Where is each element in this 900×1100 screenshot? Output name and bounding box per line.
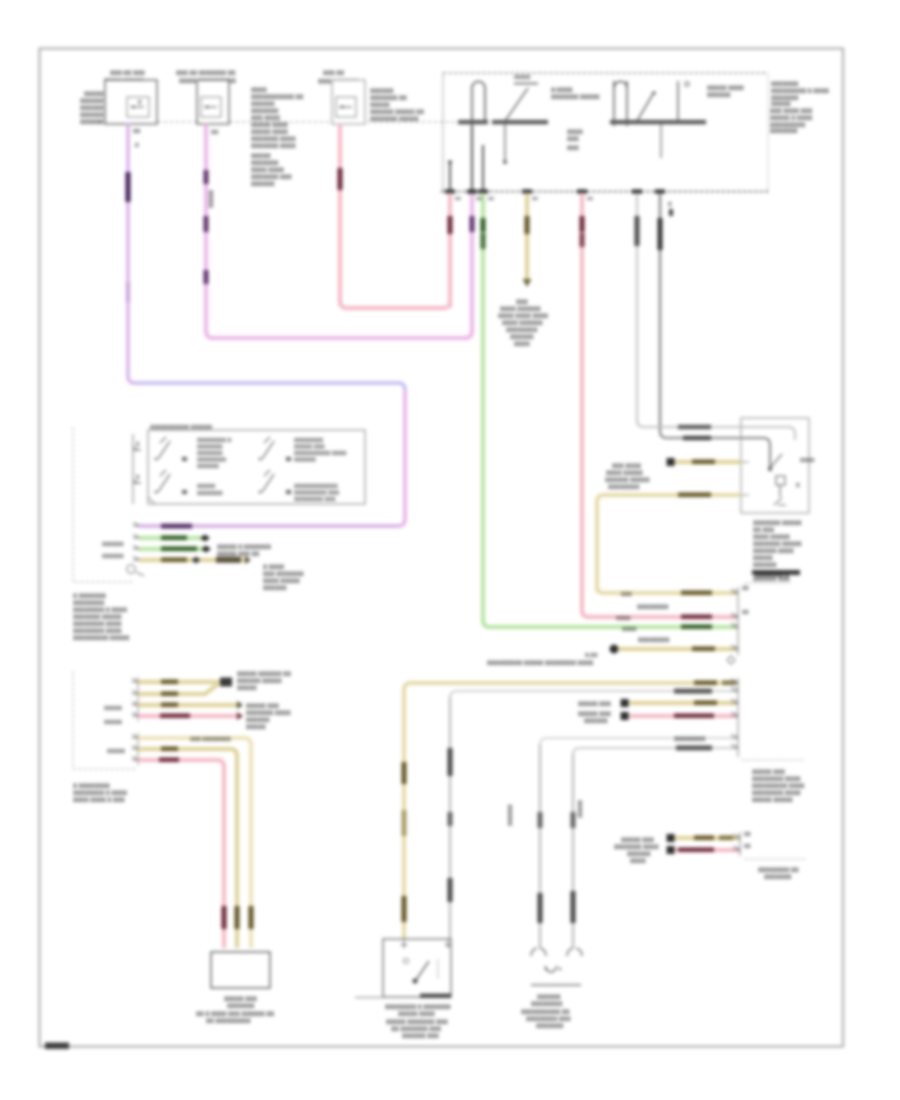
svg-text:XXXXXX: XXXXXX: [102, 554, 124, 560]
svg-text:XXXX: XXXX: [514, 342, 530, 348]
big tan loop top y683: [404, 683, 738, 690]
svg-text:X XXXX: X XXXX: [263, 565, 284, 571]
wire W10 dark drop x660: [659, 193, 661, 432]
svg-text:XXXXXXXXX XXXXX XXXXXXXX XXXX: XXXXXXXXX XXXXX XXXXXXXX XXXX: [487, 661, 593, 667]
svg-text:XXXXX XXXX: XXXXX XXXX: [251, 130, 288, 136]
svg-text:XXXXX: XXXXX: [578, 800, 584, 818]
wire tan T1 row y560: [139, 558, 246, 563]
connector bus y191 dashed: [441, 191, 768, 193]
S1 left bracket pins: [132, 434, 134, 504]
M1 left label text: [80, 92, 104, 126]
W1 wire code labels: [125, 172, 130, 202]
svg-text:XXXXXXXX: XXXXXXXX: [531, 1002, 562, 1008]
gray vertical x573: [572, 754, 574, 948]
svg-text:XX: XX: [742, 610, 749, 616]
K2 internals: [768, 467, 772, 471]
bottom mid box B2: [383, 939, 451, 997]
svg-text:XXXXXX XXXXX XX: XXXXXX XXXXX XX: [370, 110, 424, 116]
svg-text:XXXX XXXXXX: XXXX XXXXXX: [502, 321, 543, 327]
svg-text:XX X XXXX XXX XXXXXX XX: XX X XXXX XXX XXXXXX XX: [196, 1012, 274, 1018]
B2 text below: [385, 1005, 451, 1040]
svg-text:XXXXXX: XXXXXX: [584, 719, 608, 725]
wire W3 pink from M3: [340, 124, 450, 308]
svg-text:XXXXXXXX X XXXXXXX: XXXXXXXX X XXXXXXX: [385, 1005, 451, 1011]
svg-text:XXX: XXX: [567, 146, 579, 152]
svg-text:XX: XX: [455, 196, 461, 201]
wire W7 tan drop x527 with arrow end: [525, 193, 530, 280]
svg-text:XXXXXXX: XXXXXXX: [536, 1024, 563, 1030]
harness dash line y122: [92, 121, 460, 123]
svg-text:XXX XX: XXX XX: [323, 71, 344, 77]
svg-text:XXXXXX: XXXXXX: [102, 542, 124, 548]
relay arm R2: [637, 94, 653, 121]
svg-text:XXXXXXX: XXXXXXX: [251, 109, 278, 115]
wire green G2 row y549: [139, 547, 205, 552]
gray row y748: [573, 748, 738, 755]
svg-text:XXXX XXXX X XXX: XXXX XXXX X XXX: [73, 798, 125, 804]
splice ring symbol: [127, 565, 135, 573]
svg-text:XXXXXX: XXXXXX: [80, 113, 104, 119]
svg-text:XXXXX: XXXXX: [753, 556, 773, 562]
ground symbol G1: [545, 966, 557, 972]
svg-text:XX: XX: [133, 129, 141, 135]
svg-text:XXXXXXX XXXXX: XXXXXXX XXXXX: [551, 95, 599, 101]
bracket BR2 x738 lower: [737, 678, 739, 757]
svg-text:XXXXXX: XXXXXX: [627, 852, 651, 858]
svg-text:XXXX XXXXX: XXXX XXXXX: [263, 579, 300, 585]
svg-text:XXXXX: XXXXX: [237, 686, 257, 692]
G1 text below: [521, 995, 571, 1030]
M3 right text block: [370, 89, 424, 123]
svg-text:XXXXXX XXXX: XXXXXX XXXX: [753, 549, 794, 555]
splice dot SP2: [610, 645, 619, 654]
svg-text:XXXXXXX: XXXXXXX: [771, 82, 798, 88]
svg-text:XXXXX XXXX: XXXXX XXXX: [398, 1012, 435, 1018]
svg-text:XXXXXX: XXXXXX: [251, 102, 275, 108]
lower-left dashed boundary D2: [73, 672, 138, 769]
svg-text:XXXXXXXX: XXXXXXXX: [637, 605, 668, 611]
bracket BR1 x738: [737, 587, 739, 655]
wire W5 magenta drop x472 (joins W2): [469, 216, 474, 232]
wire W6 green drop x483: [483, 193, 490, 627]
svg-text:XXXXXXX XXXX: XXXXXXX XXXX: [251, 137, 296, 143]
svg-text:XXXXX: XXXXX: [107, 749, 125, 755]
bus bar segment A: [458, 120, 488, 124]
svg-text:XXXXX XXX: XXXXX XXX: [246, 704, 279, 710]
wire tan rowA y682: [138, 680, 220, 685]
wire W2 magenta from M2: [206, 124, 472, 338]
svg-text:XXXXXX: XXXXXX: [753, 563, 777, 569]
svg-text:XXXXXXXXXXXX: XXXXXXXXXXXX: [294, 484, 338, 490]
wire pink rowG y760 turns down x224: [138, 760, 224, 948]
svg-text:XXXXXXXX XXXX: XXXXXXXX XXXX: [73, 629, 121, 635]
svg-text:XXXXX X XXXXXXX: XXXXX X XXXXXXX: [217, 545, 271, 551]
svg-text:XXXXXXX XXXX: XXXXXXX XXXX: [246, 711, 291, 717]
right module text TB2: [752, 770, 804, 804]
svg-text:XXX: XXX: [567, 137, 579, 143]
svg-text:XXXXX XXX: XXXXX XXX: [578, 712, 611, 718]
svg-text:XXXXXX: XXXXXX: [537, 995, 561, 1001]
svg-text:XXXXXXX: XXXXXXX: [227, 1004, 254, 1010]
svg-text:XXXXXXX XXX: XXXXXXX XXX: [251, 175, 292, 181]
svg-text:XXXXX XXXXX: XXXXX XXXXX: [752, 798, 793, 804]
splice square SP4: [621, 712, 629, 720]
svg-text:XXXX: XXXX: [622, 627, 637, 633]
svg-text:XXXXX: XXXXX: [209, 190, 215, 208]
svg-text:XXXXXX: XXXXXX: [80, 120, 104, 126]
svg-text:XXXXXXX XXXXX: XXXXXXX XXXXX: [753, 521, 801, 527]
relay R1 stub down: [504, 124, 506, 160]
wire W8 pink drop x582: [582, 193, 589, 617]
relay box K2: [741, 418, 809, 513]
svg-text:XXXXXXX: XXXXXXX: [197, 491, 223, 497]
svg-text:XXXXX XXX: XXXXX XXX: [752, 770, 785, 776]
svg-text:XXXXXX XXXXX: XXXXXX XXXXX: [237, 679, 282, 685]
splice text under W7: [498, 300, 548, 348]
svg-text:XXXXXXXX: XXXXXXXX: [506, 328, 537, 334]
svg-text:XXXXX XXXXXX XX: XXXXX XXXXXX XX: [237, 672, 291, 678]
svg-text:XXX XXXXXXXX: XXX XXXXXXXX: [190, 737, 231, 743]
svg-text:XXXXX X XXXX: XXXXX X XXXX: [770, 116, 812, 122]
wire tan rowB y694 merging up: [138, 684, 218, 694]
svg-text:XXXX XXXX XXXX: XXXX XXXX XXXX: [498, 314, 548, 320]
svg-text:XXXXX: XXXXX: [251, 154, 271, 160]
svg-text:XXXXXX XXX: XXXXXX XXX: [402, 1034, 439, 1040]
svg-text:X-XXXX: X-XXXX: [551, 88, 573, 94]
component M3 box: [318, 71, 365, 124]
gray row y691: [450, 691, 738, 698]
svg-text:XXXXXXXXX XXXXX: XXXXXXXXX XXXXX: [73, 636, 129, 642]
svg-text:X: X: [135, 143, 139, 149]
svg-text:X-XX: X-XX: [585, 653, 598, 659]
gray vertical x540: [539, 744, 541, 948]
svg-text:XXXXX XXXXXXX XXX: XXXXX XXXXXXX XXX: [386, 1020, 448, 1026]
svg-text:XXX-XX XXX: XXX-XX XXX: [110, 71, 145, 77]
connector rows left: bracket pins x132-139: [133, 523, 139, 560]
svg-text:XXXXXX: XXXXXX: [80, 99, 104, 105]
switch glyph SW1: [158, 437, 274, 492]
svg-text:XXXXX: XXXXX: [197, 484, 216, 490]
svg-text:XX: XX: [587, 196, 593, 201]
B1 text below: [196, 997, 274, 1025]
svg-text:XXXX: XXXX: [800, 458, 815, 464]
bus bar segment B: [610, 120, 706, 124]
svg-text:XXXXXX: XXXXXX: [80, 106, 104, 112]
wire pink row y617: [589, 615, 738, 620]
B2 pin glyphs: [401, 940, 451, 948]
svg-text:XXXXXXXXX XXX: XXXXXXXXX XXX: [294, 491, 339, 497]
bracket BR3: [739, 832, 741, 856]
text left of SP1: [605, 464, 650, 491]
svg-text:XXXXXXXX: XXXXXXXX: [638, 638, 669, 644]
svg-text:XX: XX: [476, 196, 482, 201]
svg-text:XXXXXX: XXXXXX: [197, 464, 219, 470]
svg-text:XXXXXXX: XXXXXXX: [251, 161, 278, 167]
svg-text:XXXXXXXXXX XX: XXXXXXXXXX XX: [521, 1010, 569, 1016]
svg-text:XXXXXXXX: XXXXXXXX: [73, 601, 104, 607]
svg-text:X: X: [668, 202, 672, 208]
svg-text:XXXXXXX XX: XXXXXXX XX: [370, 96, 407, 102]
splice square SP1: [667, 458, 675, 466]
svg-text:XXX XXXX XXX: XXX XXXX XXX: [770, 109, 812, 115]
wire cream rowE y738 turns down x251: [138, 738, 251, 948]
svg-text:XXXXXXXX XXXX: XXXXXXXX XXXX: [752, 777, 800, 783]
svg-text:XX: XX: [744, 832, 751, 838]
svg-text:XXXX: XXXX: [616, 616, 631, 622]
svg-text:XXXXXXXX: XXXXXXXX: [674, 737, 705, 743]
wire W4 pink drop x450 (joins W3): [448, 193, 453, 308]
svg-text:XXXXXX: XXXXXX: [246, 718, 270, 724]
svg-text:XXXXXXX XXXXX: XXXXXXX XXXXX: [753, 542, 801, 548]
svg-text:XXXXXX: XXXXXX: [510, 335, 534, 341]
svg-text:XXX XXXX: XXX XXXX: [251, 116, 280, 122]
svg-text:XXXXX: XXXXX: [104, 720, 122, 726]
svg-text:XXXXXXXX XX: XXXXXXXX XX: [758, 868, 799, 874]
svg-text:XXXXXXXXXX XXXX: XXXXXXXXXX XXXX: [294, 451, 347, 457]
component M1 driver module box: [104, 71, 157, 124]
svg-text:XXXXX: XXXXX: [370, 103, 390, 109]
svg-text:XXXXXXXX XXX: XXXXXXXX XXX: [294, 497, 336, 503]
wire tan row y593: [597, 586, 738, 593]
wire tan T3 y495 loop left: [597, 495, 741, 593]
svg-text:XXXXXXX: XXXXXXX: [197, 451, 223, 457]
wire green G1 row y538: [139, 536, 205, 541]
pink row y716: [629, 714, 738, 719]
svg-text:XXXX: XXXX: [567, 130, 583, 136]
bracket pins x131-139 group1: [132, 679, 138, 716]
svg-text:XX: XX: [532, 196, 538, 201]
svg-text:XXXX XXXXX: XXXX XXXXX: [606, 471, 643, 477]
svg-text:XXXXXXXX XXX: XXXXXXXX XXX: [526, 1017, 571, 1023]
svg-text:XXXXXX: XXXXXX: [707, 93, 731, 99]
svg-text:XXXXXXX XXXX: XXXXXXX XXXX: [251, 144, 296, 150]
svg-text:X: X: [796, 483, 800, 489]
M2 right fuse text block: [251, 88, 303, 188]
svg-text:XXXXXXXXX X XXXX: XXXXXXXXX X XXXX: [771, 89, 829, 95]
svg-text:XXXXXXXX: XXXXXXXX: [294, 438, 323, 444]
svg-text:XXXXX: XXXXX: [514, 75, 531, 81]
pin stub P1: [450, 126, 483, 191]
K1 outside right text block: [770, 82, 829, 135]
splice square SP3: [621, 699, 629, 707]
svg-text:XXXXXXXX XXXX: XXXXXXXX XXXX: [73, 622, 121, 628]
svg-text:XXXXX XXX: XXXXX XXX: [578, 702, 611, 708]
svg-text:XXX: XXX: [621, 592, 632, 598]
wire tan rowF y749 turns down x237: [138, 749, 237, 948]
gray vertical x450: [449, 697, 451, 939]
text under tan: [263, 565, 304, 592]
svg-text:XXXXXX: XXXXXX: [263, 586, 287, 592]
svg-text:XXXXX XXXX: XXXXX XXXX: [251, 123, 288, 129]
svg-text:XXXX XXXXXX: XXXX XXXXXX: [500, 307, 541, 313]
svg-text:XXXXX XXX: XXXXX XXX: [621, 838, 654, 844]
svg-text:XXXXXX: XXXXXX: [251, 182, 275, 188]
svg-text:XXXXXX XXXXX: XXXXXX XXXXX: [605, 478, 650, 484]
svg-text:XX: XX: [211, 130, 219, 136]
bracket pins group2: [132, 735, 138, 760]
wire W9 corner to relay: y428 run: [637, 420, 795, 440]
wire pink row y850: [675, 848, 740, 853]
svg-text:X XXXXXXXX: X XXXXXXXX: [73, 784, 110, 790]
svg-text:XXXXX: XXXXX: [104, 706, 122, 712]
svg-text:XX XXX: XX XXX: [753, 528, 774, 534]
svg-text:XXXXXXXX X XXXX: XXXXXXXX X XXXX: [73, 791, 127, 797]
svg-text:XXXXX: XXXXX: [771, 102, 791, 108]
gray row label y738: [540, 738, 738, 745]
fuse F1 loop: [472, 82, 485, 192]
wire tan row y838: [675, 836, 740, 841]
pin ticks on bus: [445, 189, 665, 193]
svg-text:XXXXX: XXXXX: [246, 725, 266, 731]
left module text block TB1: [73, 594, 129, 642]
wire W10 corner: y438 run: [660, 431, 770, 467]
svg-text:XX: XX: [744, 844, 751, 850]
splice square SP5: [667, 834, 675, 842]
fuse F2 legs: [613, 81, 615, 126]
tan loop vertical x404: [402, 690, 407, 939]
svg-text:XXX XXXXXXX: XXX XXXXXXX: [263, 572, 304, 578]
svg-text:XXXXXXXX X: XXXXXXXX X: [755, 573, 789, 579]
component M2 SAM box: [176, 71, 237, 124]
svg-text:XXXXXXX: XXXXXXX: [764, 875, 791, 881]
wire tan rowC y705: [138, 703, 237, 708]
svg-text:XX: XX: [742, 586, 749, 592]
relay arm R1: [505, 88, 528, 121]
svg-text:XX XXXXXXX XXX: XX XXXXXXX XXX: [391, 1027, 441, 1033]
svg-text:XX XXXXXXXXX: XX XXXXXXXXX: [206, 1019, 251, 1025]
svg-text:XXXXX: XXXXX: [84, 92, 104, 98]
svg-text:XXXXXX: XXXXXX: [508, 804, 514, 826]
svg-text:XXXXX XXX: XXXXX XXX: [294, 445, 325, 451]
K2 under text block: [752, 521, 801, 583]
svg-text:XXXXXXXX X XXXX: XXXXXXXX X XXXX: [73, 608, 127, 614]
svg-text:XXXXXXXX XXXX: XXXXXXXX XXXX: [752, 791, 800, 797]
svg-text:XXXX: XXXX: [251, 88, 267, 94]
wire tan row y650: [618, 647, 738, 652]
svg-text:XXXXXXXX X: XXXXXXXX X: [197, 438, 232, 444]
svg-text:XXX XX XXXXXXX XX: XXX XX XXXXXXX XX: [176, 71, 235, 77]
left dashed boundary D1: [73, 428, 135, 582]
svg-text:XXXX XXXX: XXXX XXXX: [251, 168, 284, 174]
svg-text:XXXXXXX: XXXXXXX: [197, 445, 223, 451]
svg-text:XXXX: XXXX: [630, 859, 646, 865]
svg-text:XXXXXXXXXXX XX: XXXXXXXXXXX XX: [251, 95, 303, 101]
svg-text:XXXXXXX XXXXX: XXXXXXX XXXXX: [370, 117, 418, 123]
svg-text:X XXXXXXX: X XXXXXXX: [73, 594, 106, 600]
svg-text:XXX XXXX: XXX XXXX: [612, 464, 641, 470]
svg-text:XXXXXXXX: XXXXXXXX: [197, 458, 226, 464]
tan row y703: [629, 701, 738, 706]
svg-text:XXXX XXXXX: XXXX XXXXX: [753, 535, 790, 541]
wire tan T2 y462 to K2: [675, 460, 741, 465]
svg-text:XX: XX: [488, 196, 494, 201]
wire pink rowD y716: [138, 714, 237, 719]
svg-text:XXXXXXXXX XXXX: XXXXXXXXX XXXX: [752, 784, 804, 790]
svg-text:XXXXX XXX: XXXXX XXX: [224, 997, 257, 1003]
bracket line group1: [137, 677, 139, 721]
svg-text:XXXXXXXX: XXXXXXXX: [608, 485, 639, 491]
wire green row y628: [490, 625, 738, 630]
ground hooks x537 x573: [531, 948, 582, 956]
lower-left text TB3: [73, 784, 127, 804]
splice square SP6: [667, 846, 675, 854]
wire W1 purple from M1: [128, 124, 405, 526]
svg-text:XXXXXX: XXXXXX: [370, 89, 394, 95]
trailer box B1: [211, 952, 270, 988]
wire W9 gray drop x637: [636, 193, 638, 421]
svg-text:XXXXXX: XXXXXX: [294, 458, 316, 464]
svg-text:XXXXXXX: XXXXXXX: [770, 129, 797, 135]
footer id text: [45, 1043, 69, 1050]
svg-text:XXXXXXX XXXX: XXXXXXX XXXX: [614, 845, 659, 851]
B2 switch glyph: [414, 961, 429, 983]
fuse box K1 top dashed: [443, 72, 768, 74]
svg-text:XXXXX XXXX: XXXXX XXXX: [707, 86, 744, 92]
svg-text:XXXXXXX XXXXX: XXXXXXX XXXXX: [73, 615, 121, 621]
svg-text:XXX: XXX: [516, 300, 528, 306]
S1 text blobs: [197, 438, 347, 503]
